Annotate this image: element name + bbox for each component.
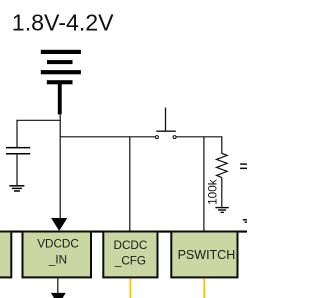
battery BT1 plate 4 (short) <box>47 80 73 84</box>
resistor R1 body (zigzag) <box>217 153 228 177</box>
capacitor C1 bottom plate <box>6 153 30 155</box>
arrow below VDCDC_IN (clipped at bottom) <box>51 293 66 298</box>
svg-text:_CFG: _CFG <box>114 254 146 267</box>
wire: drop to PSWITCH pin <box>203 137 205 231</box>
wire: capacitor C1 bottom lead <box>16 155 18 186</box>
ground symbol under C1 <box>9 186 24 191</box>
internal yellow wire below DCDC_CFG <box>129 279 131 298</box>
wire: resistor R1 top lead <box>221 137 223 154</box>
internal yellow wire below PSWITCH <box>203 279 205 298</box>
battery BT1 plate 1 (long) <box>41 50 81 54</box>
battery BT1 thick terminal lead <box>58 84 62 114</box>
wire: resistor R1 bottom lead <box>221 178 223 207</box>
pushbutton S1 actuator bar <box>156 130 176 132</box>
pin box (partial, left edge) <box>0 232 11 278</box>
wire: horizontal net to pushbutton left contact <box>60 136 155 138</box>
svg-text:DCDC: DCDC <box>114 239 148 252</box>
battery BT1 plate 3 (long) <box>41 70 81 74</box>
capacitor C1 top plate <box>6 147 30 149</box>
pin box VDCDC_IN <box>23 232 92 278</box>
wire: pushbutton right contact to resistor <box>176 136 222 138</box>
pin box DCDC_CFG <box>103 232 157 278</box>
pin box PSWITCH <box>171 232 237 278</box>
svg-text:PSWITCH: PSWITCH <box>178 248 236 262</box>
wire: down arrow into VDCDC_IN pin <box>51 218 67 231</box>
ground symbol under R1 <box>215 208 228 213</box>
pushbutton S1 actuator stem <box>165 108 167 132</box>
svg-text:100k: 100k <box>206 179 220 205</box>
capacitor fragment at right edge: bottom plate <box>240 168 247 170</box>
battery BT1 plate 2 (short) <box>47 60 73 64</box>
pushbutton S1 right contact <box>173 136 176 139</box>
pushbutton S1 left contact <box>155 136 158 139</box>
capacitor fragment at right edge: top plate <box>240 163 247 164</box>
ground fragment at right edge <box>243 219 247 220</box>
IC body top boundary line <box>0 231 247 233</box>
wire: drop to DCDC_CFG pin <box>129 137 131 231</box>
svg-text:VDCDC: VDCDC <box>37 238 79 251</box>
wire: below VDCDC_IN pin (internal) <box>57 279 59 294</box>
svg-text:1.8V-4.2V: 1.8V-4.2V <box>12 10 114 36</box>
wire: horizontal branch to input capacitor <box>16 119 60 121</box>
wire: capacitor C1 top lead <box>16 120 18 147</box>
svg-text:_IN: _IN <box>48 253 67 266</box>
wire: main vertical net battery to VDCDC_IN <box>59 114 61 219</box>
